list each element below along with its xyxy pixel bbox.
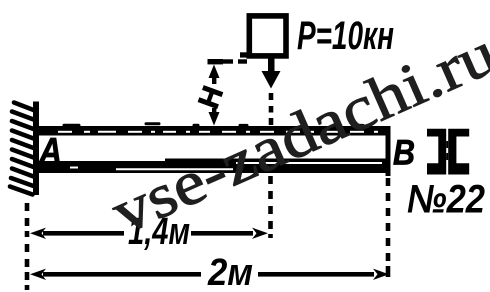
H dimension upper arrow [209,65,220,79]
H dimension dashes to block [221,59,247,63]
svg-text:P=10кн: P=10кн [297,14,394,58]
dimension line 2m [30,269,46,280]
wall line [33,102,39,196]
svg-text:A: A [38,131,62,172]
svg-text:2м: 2м [207,252,253,292]
right dashed extension line [386,178,391,277]
drop dashed line lower [268,176,273,238]
H dimension top tick [208,59,224,64]
I-beam section symbol: right bracket [ [448,129,469,175]
left dashed extension line [25,203,30,290]
load block P [249,16,286,56]
dimension line 1.4m [30,228,46,239]
I-beam section symbol: left bracket ] [427,129,446,175]
beam axis dash-dot bumps above top flange [64,124,363,126]
wall hatching [10,103,34,195]
load force arrow [268,59,275,73]
drop dashed line upper [269,93,274,125]
svg-text:B: B [393,134,415,173]
beam top dash-dot white cuts [58,131,378,133]
I-beam center dashes [446,141,448,160]
beam top flange [36,126,391,136]
svg-text:№22: №22 [407,178,485,222]
H dimension lower arrow [212,108,216,116]
beam right end line [386,127,391,176]
label H (rotated) [193,82,230,113]
beam bottom flange [36,161,386,173]
